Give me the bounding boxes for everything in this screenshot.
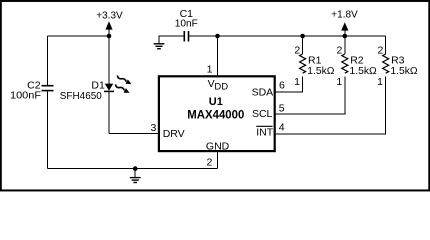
svg-text:1: 1 <box>207 63 213 75</box>
svg-text:2: 2 <box>337 44 343 56</box>
svg-text:5: 5 <box>279 103 285 115</box>
svg-text:1: 1 <box>294 76 300 88</box>
pin name VDD <box>208 78 229 93</box>
wire C2 bottom lead <box>46 91 48 168</box>
wire ground to C1 <box>159 35 184 37</box>
node +1.8V junction <box>343 34 348 39</box>
svg-text:DD: DD <box>214 81 228 92</box>
svg-text:U1: U1 <box>209 96 223 108</box>
svg-text:10nF: 10nF <box>175 18 198 30</box>
pin name INT with overline <box>256 126 274 138</box>
svg-text:INT: INT <box>256 126 274 138</box>
wire VDD drop to pin 1 <box>217 36 219 76</box>
node VDD junction <box>215 34 220 39</box>
wire INT to R3 <box>275 133 386 135</box>
svg-text:1.5kΩ: 1.5kΩ <box>307 65 334 77</box>
wire C1 to VDD node <box>189 35 217 37</box>
svg-text:SFH4650: SFH4650 <box>60 90 102 102</box>
node R1 junction <box>300 34 305 39</box>
svg-text:2: 2 <box>206 157 212 169</box>
wire SDA to R1 <box>275 91 303 93</box>
svg-text:SDA: SDA <box>252 87 274 99</box>
capacitor C2 <box>42 86 54 91</box>
svg-text:+1.8V: +1.8V <box>331 9 358 21</box>
power +3.3V <box>96 10 123 30</box>
svg-text:GND: GND <box>206 141 230 153</box>
svg-text:MAX44000: MAX44000 <box>187 109 244 121</box>
svg-text:1: 1 <box>377 76 383 88</box>
LED emission arrow 1 <box>116 74 133 86</box>
svg-text:+3.3V: +3.3V <box>96 10 123 22</box>
wire SCL to R2 <box>275 113 345 115</box>
wire top rail to R3 <box>218 35 386 37</box>
resistor R2 <box>342 36 348 114</box>
power +1.8V <box>331 9 358 36</box>
node ground junction <box>133 166 138 171</box>
svg-text:100nF: 100nF <box>10 89 41 101</box>
svg-text:1.5kΩ: 1.5kΩ <box>350 65 377 77</box>
LED D1 <box>104 84 114 92</box>
wire to DRV pin <box>109 132 160 134</box>
wire +3.3V rail to C2 <box>47 35 109 37</box>
svg-text:4: 4 <box>279 122 285 134</box>
capacitor C1 <box>184 31 188 42</box>
svg-text:2: 2 <box>294 44 300 56</box>
resistor R1 <box>300 36 306 92</box>
LED emission arrow 2 <box>114 83 131 95</box>
svg-text:1: 1 <box>336 76 342 88</box>
wire C2 top lead <box>46 36 48 85</box>
IC U1 MAX44000 body <box>159 76 275 151</box>
svg-text:DRV: DRV <box>163 128 185 140</box>
wire GND pin down <box>216 152 218 168</box>
svg-text:2: 2 <box>378 44 384 56</box>
wire LED cathode down <box>108 92 110 133</box>
svg-text:3: 3 <box>150 122 156 134</box>
wire +3.3V down to LED anode <box>108 29 110 84</box>
ground (at C1) <box>154 36 165 49</box>
svg-text:6: 6 <box>279 80 285 92</box>
node junction +3.3V/C2 <box>107 34 112 39</box>
resistor R3 <box>383 36 389 134</box>
wire bottom ground rail <box>47 168 217 170</box>
svg-text:SCL: SCL <box>252 108 273 120</box>
ground (bottom) <box>130 169 141 183</box>
svg-text:1.5kΩ: 1.5kΩ <box>390 65 417 77</box>
